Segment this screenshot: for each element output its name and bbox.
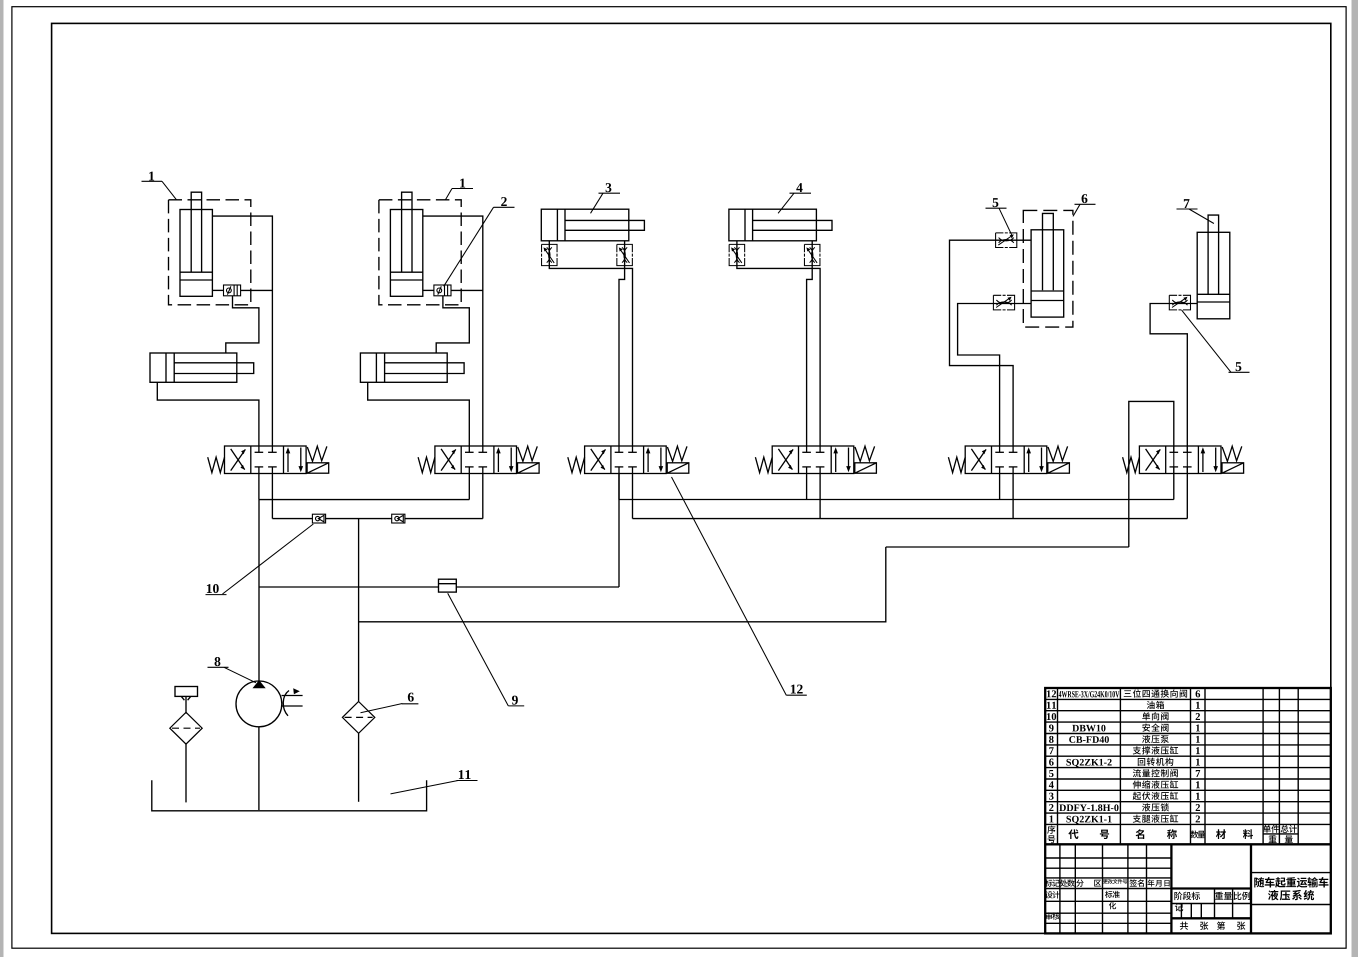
label 3 leader xyxy=(591,193,621,213)
valve3 P port drop to relief line xyxy=(618,474,620,588)
drawing title xyxy=(1254,877,1264,887)
wire cylinder7 port to valve6 B xyxy=(1150,304,1197,447)
T manifold right segment xyxy=(633,518,1188,520)
page edge strips xyxy=(0,0,4,957)
return line to tank filter xyxy=(358,519,360,702)
support cylinder 7 body xyxy=(1197,232,1230,318)
P manifold left segment xyxy=(259,499,469,501)
label 6 leader xyxy=(1073,204,1096,216)
breather filter xyxy=(170,712,202,744)
return step from valve6 area xyxy=(886,546,1129,548)
table header text xyxy=(1047,826,1055,834)
label 11 leader xyxy=(391,781,478,794)
label 5 leader xyxy=(1182,310,1250,372)
label 5 leader xyxy=(986,208,1012,235)
rotary cylinder rod xyxy=(1043,213,1054,290)
rotary piston xyxy=(1031,290,1064,292)
hydraulic pump 8 (CB-FD40) xyxy=(236,681,282,727)
support leg cylinder group 1 (item 1, SQ2ZK1-1) xyxy=(150,192,272,446)
return manifold lower xyxy=(359,547,886,622)
flow control valve at cylinder 7 (item 5) xyxy=(1169,295,1190,310)
flow control valve upper (item 5) xyxy=(996,233,1017,248)
oil tank 11 xyxy=(152,780,427,811)
label 6 leader xyxy=(361,704,419,713)
return filter (item 6 label) xyxy=(342,702,374,734)
label 7 leader xyxy=(1177,209,1214,224)
label 4 leader xyxy=(778,193,811,213)
luffing cylinder 3 assembly xyxy=(541,209,644,446)
flow control valve lower (item 5) xyxy=(993,295,1014,310)
cylinder 7 piston xyxy=(1197,293,1230,295)
directional valve 12.3 (4WRSE 3-pos 4-way) xyxy=(568,446,689,474)
wire rotary bottom port to valve5 A xyxy=(958,304,1032,447)
pump suction pipe xyxy=(258,727,260,810)
valve bottom stubs to P and T manifolds xyxy=(258,474,260,500)
P manifold right segment xyxy=(619,499,1174,501)
directional valve 12.5 (4WRSE 3-pos 4-way) xyxy=(948,446,1069,474)
directional valve 12.2 (4WRSE 3-pos 4-way) xyxy=(418,446,539,474)
parts list rows text xyxy=(1047,690,1051,697)
air breather xyxy=(175,687,198,697)
label 10 leader xyxy=(206,524,314,595)
label 1 leader xyxy=(445,189,473,201)
wire rotary top port to valve5 B xyxy=(950,240,1032,446)
label 8 leader xyxy=(208,667,257,683)
valve6 port through-lines xyxy=(1173,446,1175,474)
rotary mechanism dashed box (item 6) xyxy=(1023,210,1073,327)
relief branch line xyxy=(259,586,619,588)
directional valve 12.6 (4WRSE 3-pos 4-way) xyxy=(1123,446,1244,474)
wire valve6 A to return xyxy=(1129,401,1174,547)
parts list and title block table xyxy=(1045,688,1331,933)
rotary cylinder body xyxy=(1031,230,1064,317)
check valve 10 right xyxy=(392,514,405,523)
label 1 leader xyxy=(142,181,177,200)
telescopic cylinder 4 assembly xyxy=(729,209,832,446)
pump pressure riser xyxy=(258,500,260,682)
revision block text xyxy=(1045,879,1053,886)
T manifold left segment xyxy=(272,518,482,520)
label 2 leader xyxy=(444,207,515,286)
directional valve 12.1 (4WRSE 3-pos 4-way) xyxy=(208,446,329,474)
check valve 10 left xyxy=(312,514,325,523)
label 9 leader xyxy=(448,593,525,706)
support leg cylinder group 2 (item 1, SQ2ZK1-1) xyxy=(360,192,482,446)
cylinder 7 rod xyxy=(1208,215,1219,294)
directional valve 12.4 (4WRSE 3-pos 4-way) xyxy=(755,446,876,474)
label 12 leader xyxy=(672,477,807,695)
safety valve 9 (DBW10) xyxy=(439,579,457,592)
